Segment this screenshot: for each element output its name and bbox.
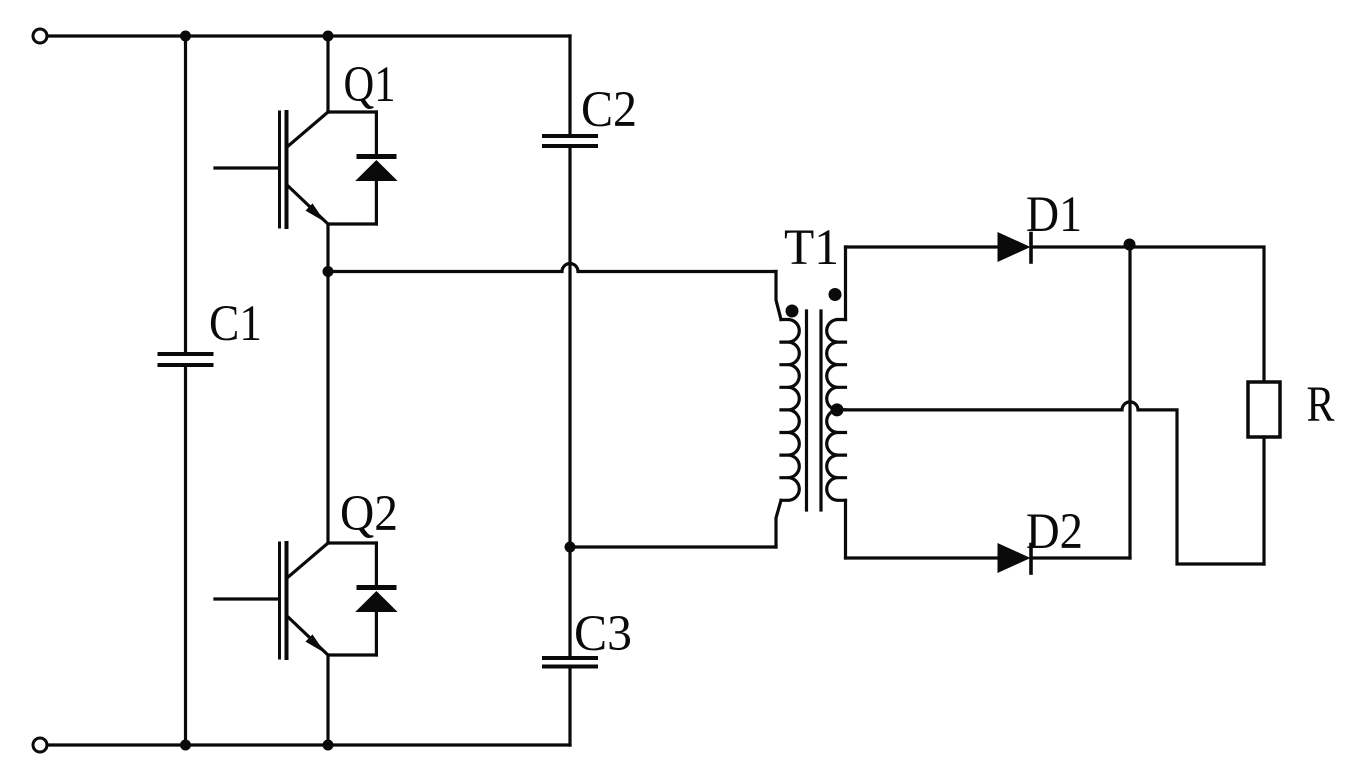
wire Q1-Q2 link (326, 272, 329, 544)
transformer T1 secondary phase dot (829, 288, 842, 301)
svg-text:C2: C2 (581, 82, 637, 138)
wire mid node to transformer (hop over C2/C3 line) (328, 264, 776, 272)
wire R bottom (1262, 437, 1265, 564)
wire secondary top to D1 (846, 245, 999, 248)
wire D1 to R top (1032, 247, 1264, 382)
terminal top-left (33, 29, 47, 43)
wire bottom rail (47, 743, 570, 746)
node bottom rail / Q2 (323, 740, 334, 751)
transistor Q1 (IGBT) (215, 36, 376, 272)
diode of Q1 (355, 112, 397, 224)
wire node to transformer primary bottom (570, 545, 776, 548)
node C2/C3 midpoint (565, 542, 576, 553)
transformer T1 primary winding (781, 320, 799, 501)
transformer T1 secondary lead bottom (844, 500, 847, 558)
capacitor C1 (160, 354, 212, 365)
wire secondary bottom to D2 (846, 556, 999, 559)
node D1 output (1124, 239, 1136, 251)
node midpoint Q1/Q2 (323, 266, 334, 277)
transformer T1 primary lead top (776, 272, 781, 320)
transistor Q2 (IGBT) (215, 543, 376, 745)
capacitor C3 (544, 658, 596, 667)
wire C1 branch lower (184, 365, 187, 745)
diode D2 (998, 543, 1032, 573)
diode D1 (998, 232, 1032, 262)
transformer center tap node (831, 403, 844, 416)
svg-text:Q1: Q1 (344, 57, 396, 113)
wire C2 branch upper (568, 36, 571, 136)
svg-text:T1: T1 (784, 220, 839, 276)
wire center tap to right (hop over D1-D2 link) (843, 402, 1264, 564)
svg-text:C1: C1 (209, 296, 262, 352)
transformer T1 primary phase dot (786, 305, 799, 318)
transformer T1 primary lead bottom (776, 500, 781, 547)
wire C3 branch lower (568, 667, 571, 746)
wire D1 node down to D2 (1128, 247, 1131, 558)
node top rail / C1 (180, 31, 191, 42)
svg-text:Q2: Q2 (340, 486, 398, 542)
wire C1 branch upper (184, 36, 187, 354)
transformer T1 secondary lead top (844, 247, 847, 320)
wire C2 to node (568, 146, 571, 658)
svg-text:D2: D2 (1026, 504, 1083, 560)
wire top rail (47, 34, 570, 37)
wire D2 to link corner (1032, 556, 1130, 559)
terminal bottom-left (33, 738, 47, 752)
diode of Q2 (355, 543, 397, 655)
node top rail / Q1 (323, 31, 334, 42)
transformer T1 secondary winding (827, 320, 846, 501)
node bottom rail / C1 (180, 740, 191, 751)
svg-text:R: R (1307, 377, 1335, 433)
resistor R (1248, 382, 1280, 437)
svg-text:C3: C3 (574, 606, 632, 662)
svg-text:D1: D1 (1026, 187, 1082, 243)
capacitor C2 (544, 136, 596, 146)
transformer T1 core (807, 311, 822, 510)
